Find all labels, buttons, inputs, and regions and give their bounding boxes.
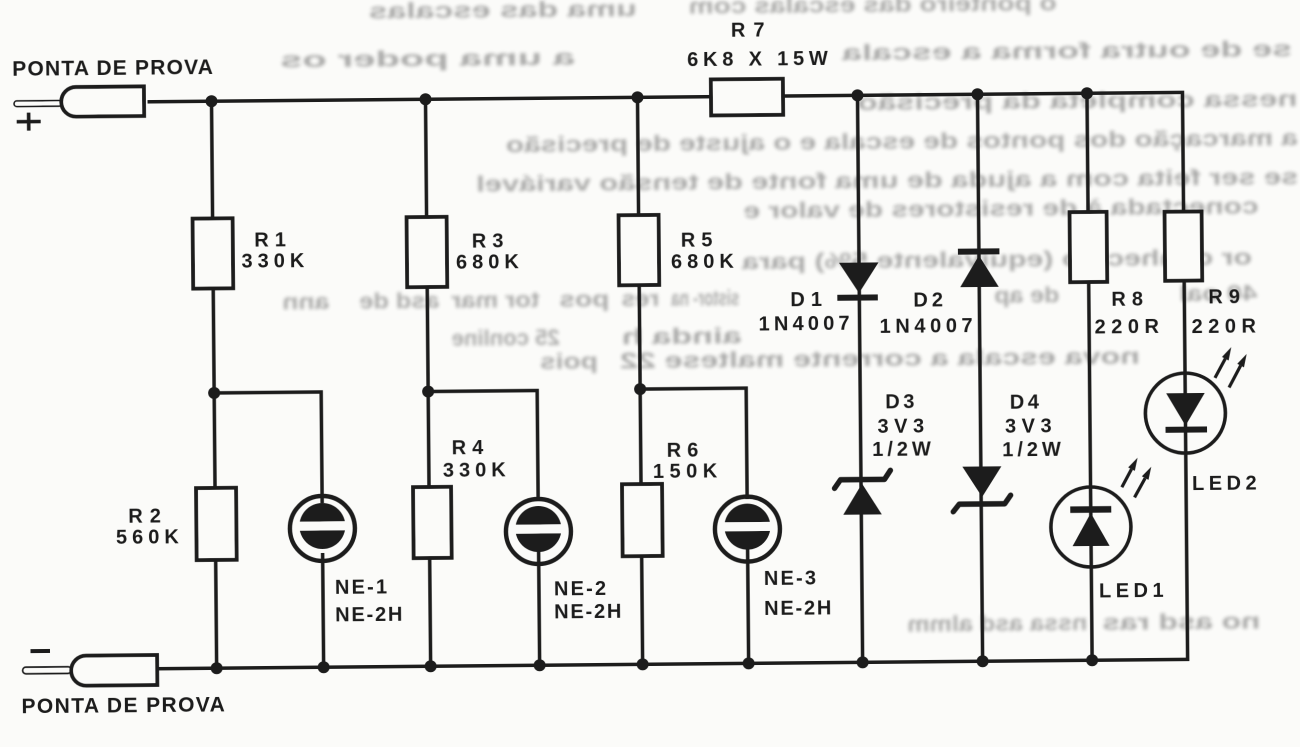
svg-text:680K: 680K: [671, 251, 739, 274]
svg-text:nessa completa da precisão: nessa completa da precisão: [857, 86, 1297, 115]
neon lamp NE-3: [715, 496, 781, 562]
svg-text:nova escala a corrente maltese: nova escala a corrente maltese 22: [620, 344, 1140, 374]
svg-text:LED2: LED2: [1192, 472, 1261, 495]
svg-text:PONTA DE PROVA: PONTA DE PROVA: [12, 56, 214, 81]
svg-text:sistor- na: sistor- na: [671, 285, 740, 311]
svg-text:D1: D1: [790, 289, 828, 311]
wire NE-3 to bottom: [748, 549, 749, 663]
probe minus (bottom): [23, 655, 158, 686]
resistor R5: [619, 215, 660, 285]
svg-text:nssa asd almm: nssa asd almm: [907, 610, 1087, 637]
svg-text:3V3: 3V3: [1005, 415, 1057, 437]
diode D2 1N4007: [958, 251, 1000, 287]
plus sign: [17, 113, 41, 131]
svg-text:uma das escalas: uma das escalas: [369, 0, 637, 24]
svg-text:220R: 220R: [1095, 316, 1165, 339]
svg-text:tor mar: tor mar: [451, 287, 540, 313]
resistor R9: [1165, 211, 1203, 280]
svg-text:NE-1: NE-1: [335, 576, 390, 598]
wire branch 2 vertical: [426, 99, 431, 666]
zener diode D4: [953, 466, 1011, 512]
svg-text:560K: 560K: [116, 526, 184, 549]
neon lamp NE-1: [290, 496, 356, 562]
svg-text:R3: R3: [472, 230, 510, 252]
node dots top bus: [205, 87, 1093, 107]
svg-text:LED1: LED1: [1099, 580, 1168, 603]
wire branch 5 vertical: [977, 94, 982, 661]
minus sign: [30, 649, 49, 653]
node dots junctions: [208, 383, 646, 399]
svg-text:pos: pos: [559, 286, 609, 311]
svg-text:R4: R4: [452, 437, 490, 459]
node dots bottom bus: [211, 654, 1099, 674]
svg-text:330K: 330K: [241, 250, 309, 273]
svg-text:R8: R8: [1111, 288, 1149, 310]
svg-text:1/2W: 1/2W: [872, 438, 935, 461]
svg-text:25 conline: 25 conline: [452, 325, 560, 351]
svg-text:R9: R9: [1208, 286, 1246, 308]
wire branch 1 vertical: [212, 101, 217, 668]
wire connector to NE-1: [214, 392, 322, 504]
svg-text:ann: ann: [282, 289, 329, 314]
resistor R2: [196, 488, 237, 560]
wire branch 3 vertical: [637, 97, 642, 664]
wire branch 7 vertical: [1182, 91, 1187, 661]
LED LED2: [1145, 373, 1226, 454]
resistor R3: [407, 217, 448, 287]
wire connector to NE-3: [640, 388, 747, 500]
resistor R8: [1070, 212, 1108, 282]
wire NE-1 to bottom: [323, 553, 324, 667]
svg-text:no asd ras: no asd ras: [1102, 608, 1260, 634]
svg-text:220R: 220R: [1192, 315, 1262, 338]
svg-text:680K: 680K: [456, 251, 524, 274]
svg-text:NE-2: NE-2: [554, 578, 609, 600]
LED1 light arrows: [1122, 458, 1152, 498]
wire top bus: [148, 92, 1183, 101]
svg-text:D3: D3: [885, 391, 918, 413]
svg-text:de ap: de ap: [994, 282, 1059, 308]
svg-text:6K8 X 15W: 6K8 X 15W: [687, 48, 833, 71]
wire branch 4 vertical: [857, 95, 862, 662]
svg-text:R5: R5: [681, 229, 719, 251]
LED2 light arrows: [1215, 347, 1247, 388]
wire bottom bus: [157, 659, 1189, 668]
svg-text:150K: 150K: [653, 460, 723, 483]
ghost bleed-through text: [280, 0, 1300, 642]
resistor R4: [413, 487, 452, 558]
diode D1 1N4007: [837, 262, 879, 297]
svg-text:1N4007: 1N4007: [879, 315, 977, 338]
svg-text:330K: 330K: [443, 459, 511, 482]
wire branch 6 vertical: [1087, 93, 1092, 660]
probe plus (top): [14, 86, 144, 117]
svg-text:a uma poder os: a uma poder os: [280, 45, 575, 73]
svg-text:R1: R1: [254, 229, 292, 251]
svg-text:D4: D4: [1010, 391, 1043, 413]
resistor R7 (on top bus): [711, 79, 783, 116]
svg-text:R2: R2: [128, 505, 168, 527]
svg-text:3V3: 3V3: [877, 415, 929, 437]
svg-text:NE-3: NE-3: [764, 567, 819, 589]
svg-text:pois: pois: [540, 348, 598, 374]
svg-text:R6: R6: [667, 440, 705, 462]
resistor R1: [193, 218, 234, 288]
svg-text:R7: R7: [731, 19, 773, 41]
svg-text:1/2W: 1/2W: [1002, 439, 1065, 462]
svg-text:D2: D2: [913, 289, 947, 311]
svg-text:NE-2H: NE-2H: [335, 604, 404, 627]
svg-text:NE-2H: NE-2H: [764, 597, 833, 620]
wire connector to NE-2: [428, 391, 538, 502]
neon lamp NE-2: [506, 499, 572, 565]
svg-text:NE-2H: NE-2H: [554, 601, 623, 624]
LED LED1: [1051, 487, 1132, 568]
svg-text:1N4007: 1N4007: [758, 313, 853, 336]
wire NE-2 to bottom: [539, 551, 540, 665]
svg-text:PONTA DE PROVA: PONTA DE PROVA: [21, 693, 226, 718]
svg-text:se de outra forma a escala: se de outra forma a escala: [841, 36, 1292, 65]
resistor R6: [622, 484, 663, 556]
zener diode D3: [834, 470, 890, 515]
